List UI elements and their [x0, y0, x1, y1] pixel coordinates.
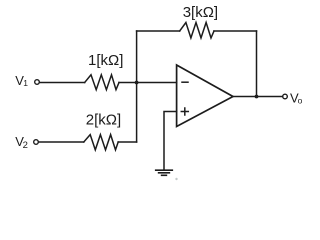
node output junction dot [255, 95, 259, 99]
label V2 [15, 134, 28, 151]
label Vo [290, 90, 303, 105]
svg-text:2: 2 [23, 140, 28, 151]
node Vo terminal circle [283, 94, 288, 99]
wire summing node vertical [136, 31, 138, 142]
op-amp plus pin mark [181, 108, 188, 115]
wire V2 to R2 [39, 141, 84, 143]
resistor R1 [85, 75, 119, 90]
wire V1 to R1 [40, 82, 85, 84]
svg-text:o: o [298, 96, 303, 106]
svg-text:2[kΩ]: 2[kΩ] [86, 111, 121, 128]
label V1 [15, 73, 28, 88]
wire R1 to inverting input [119, 82, 177, 84]
svg-text:1[kΩ]: 1[kΩ] [88, 52, 123, 69]
wire op-amp output [233, 96, 283, 98]
node V1 terminal circle [35, 80, 40, 85]
wire R3 to right corner [214, 30, 257, 32]
node summing junction dot [135, 81, 139, 85]
resistor R3 [180, 23, 214, 39]
svg-text:1: 1 [23, 78, 28, 88]
op-amp minus pin mark [182, 81, 188, 83]
wire R2 to summing vertical [118, 141, 136, 143]
resistor R2 [84, 135, 118, 150]
op-amp U1 [177, 65, 233, 127]
svg-text:3[kΩ]: 3[kΩ] [183, 4, 218, 21]
ground [156, 170, 173, 175]
artifact dot [175, 178, 177, 180]
node V2 terminal circle [34, 140, 39, 145]
wire feedback right vertical [256, 31, 258, 97]
wire non-inverting input [164, 112, 177, 170]
wire top-left to R3 [137, 30, 180, 32]
